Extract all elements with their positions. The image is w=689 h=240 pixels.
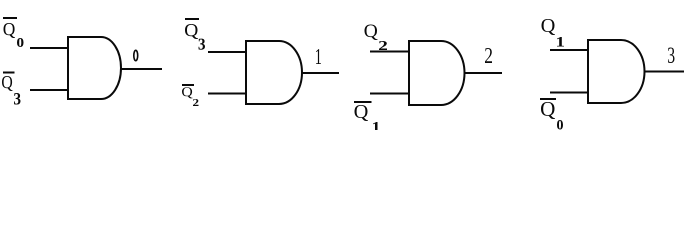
- wire U1 input A (net Q0bar): [30, 47, 68, 49]
- wire U4 input A (net Q1): [550, 49, 588, 51]
- net label Q0bar letter Q: [4, 23, 16, 38]
- AND gate U2: [246, 41, 302, 104]
- output net label 3: [668, 48, 675, 64]
- net label Q3bar overbar: [3, 72, 15, 74]
- net label Q0bar letter Q: [541, 102, 555, 119]
- net label Q3bar subscript 3: [14, 93, 21, 105]
- net label Q0bar overbar: [3, 17, 17, 19]
- wire U2 output (net 1): [301, 72, 339, 74]
- wire U2 input A (net Q3bar): [208, 51, 246, 53]
- wire U2 input B (net Q2bar): [208, 93, 246, 95]
- wire U1 input B (net Q3bar): [30, 89, 68, 91]
- output net label 2: [485, 48, 492, 63]
- AND gate U1: [68, 37, 121, 99]
- wire U4 output (net 3): [644, 71, 684, 73]
- AND gate U3: [409, 41, 465, 105]
- wire U1 output (net 0): [120, 68, 162, 70]
- net label Q3bar overbar: [185, 18, 199, 20]
- net label Q3bar subscript 3: [199, 39, 206, 50]
- net label Q0bar overbar: [540, 98, 556, 100]
- output net label 0: [134, 50, 138, 60]
- net label Q0bar subscript 0: [17, 38, 24, 47]
- net label Q1bar overbar: [354, 101, 372, 103]
- net label Q2bar subscript 2: [193, 99, 199, 106]
- wire U4 input B (net Q0bar): [550, 92, 588, 94]
- output net label 1: [316, 49, 321, 64]
- wire U3 input A (net Q2): [370, 51, 409, 53]
- net label Q1 letter Q: [542, 19, 556, 35]
- net label Q1bar subscript 1: [373, 122, 380, 132]
- net label Q2 letter Q: [365, 25, 378, 41]
- net label Q3bar letter Q: [2, 76, 13, 91]
- net label Q1 subscript 1: [557, 37, 564, 47]
- net label Q2 subscript 2: [379, 41, 387, 50]
- net label Q2bar overbar: [182, 84, 194, 86]
- wire U3 output (net 2): [464, 72, 502, 74]
- net label Q3bar letter Q: [185, 24, 198, 39]
- wire U3 input B (net Q1bar): [370, 93, 409, 95]
- AND gate U4: [588, 40, 645, 103]
- net label Q1bar letter Q: [355, 105, 369, 121]
- net label Q2bar letter Q: [182, 87, 193, 98]
- net label Q0bar subscript 0: [557, 120, 563, 130]
